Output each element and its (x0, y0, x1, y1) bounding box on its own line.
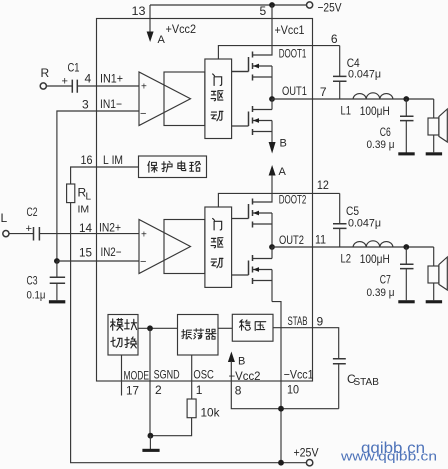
node: +25V rail junction (278, 460, 284, 466)
svg-text:0.047μ: 0.047μ (348, 218, 381, 230)
IC outline box (97, 19, 313, 382)
gate driver box 2 (205, 207, 232, 287)
svg-text:IN2−: IN2− (101, 245, 122, 259)
wire: OUT1 to filter (272, 98, 434, 100)
wire: C1 to IN1+ (pin 4) (77, 85, 139, 87)
inductor L1 (353, 93, 393, 99)
capacitor C3 (56, 261, 58, 277)
ground (398, 300, 414, 303)
wire: IN2- (pin 15) (57, 260, 139, 262)
svg-text:0.39 μ: 0.39 μ (367, 139, 395, 151)
svg-text:+: + (141, 82, 147, 93)
svg-text:IN1+: IN1+ (100, 72, 123, 86)
svg-text:+25V: +25V (294, 446, 319, 460)
wire: pin 5 +Vcc1 drop to M1 drain (253, 5, 273, 55)
arrow B down (M2 source to -Vcc2) (269, 142, 276, 154)
terminal -25V (307, 2, 313, 8)
svg-text:R: R (41, 66, 50, 80)
svg-text:L2: L2 (341, 252, 352, 266)
node OUT2 (269, 244, 275, 250)
wire: SGND pin 2 drop (149, 328, 151, 435)
node: -Vcc rail junction (278, 406, 284, 412)
transistor M4 (lower, ch2) (249, 247, 273, 302)
wire: regulator to pin 9 STAB (273, 328, 339, 359)
svg-text:A: A (279, 166, 287, 178)
svg-text:14: 14 (79, 221, 92, 235)
svg-text:B: B (280, 138, 287, 150)
svg-text:OUT1: OUT1 (282, 84, 307, 98)
ground (49, 300, 65, 303)
ground (426, 300, 442, 303)
svg-text:+: + (141, 230, 147, 241)
svg-text:C3: C3 (27, 274, 38, 288)
svg-text:+Vcc1: +Vcc1 (275, 23, 305, 37)
wire: OUT2 to filter (272, 246, 434, 248)
svg-text:10: 10 (287, 383, 299, 397)
wire: R to C1 (46, 85, 72, 87)
wire: M4 source to pin 10 -Vcc1 (272, 302, 281, 463)
wire: 10k to SGND node (150, 418, 192, 436)
terminal +25V (306, 460, 312, 466)
wire: pin 8 drop (231, 361, 338, 409)
wire: driver1 upper gate lead (232, 71, 249, 73)
svg-text:11: 11 (315, 233, 326, 247)
svg-text:−Vcc2: −Vcc2 (229, 369, 261, 383)
svg-text:STAB: STAB (288, 314, 308, 328)
capacitor C6 (405, 99, 407, 116)
wire: mode box to oscillator (138, 327, 178, 329)
svg-text:IN2+: IN2+ (99, 221, 121, 235)
wire: pin 16 to protection box (71, 167, 139, 184)
svg-text:9: 9 (317, 315, 324, 329)
svg-text:DOOT1: DOOT1 (279, 49, 307, 61)
gate driver box 1 (205, 59, 232, 139)
arrow B up (pin 8 -Vcc2) (228, 352, 235, 363)
svg-text:6: 6 (331, 32, 338, 46)
svg-text:15: 15 (79, 246, 92, 260)
wire: IN1- (pin 3) to left vertical (57, 111, 139, 261)
wire: DOOT1 from driver top to pin 6 (218, 46, 339, 59)
wire: MODE pin 17 stub (121, 355, 123, 396)
svg-text:C6: C6 (380, 125, 391, 139)
svg-text:C2: C2 (27, 205, 38, 219)
wire: L to C2 (9, 233, 34, 235)
node OUT1 (269, 96, 275, 102)
inductor L2 (353, 241, 393, 247)
speaker SP1 (433, 99, 435, 118)
svg-text:+Vcc2: +Vcc2 (166, 22, 197, 36)
wire: OSC pin 1 drop (191, 355, 193, 399)
capacitor C4 (339, 46, 341, 77)
svg-text:0.047μ: 0.047μ (348, 69, 381, 81)
svg-text:8: 8 (235, 383, 242, 397)
wire: R_LIM down to bottom +25V rail (71, 203, 307, 463)
op-amp U2 (139, 220, 191, 274)
svg-text:OUT2: OUT2 (279, 233, 304, 247)
capacitor C_STAB (333, 359, 346, 364)
svg-text:2: 2 (155, 383, 162, 397)
svg-text:−Vcc1: −Vcc1 (284, 368, 314, 382)
resistor R_LIM (67, 184, 75, 203)
svg-text:0.39 μ: 0.39 μ (367, 287, 395, 299)
svg-text:L IM: L IM (103, 153, 123, 167)
wire: pin 13 riser (149, 5, 151, 32)
capacitor C5 (339, 193, 341, 223)
protection box 保护电路 (139, 156, 207, 178)
transistor M3 (upper, ch2) (249, 199, 273, 248)
svg-text:5: 5 (260, 4, 267, 18)
node: IN- common / C3 (54, 258, 60, 264)
svg-text:12: 12 (317, 178, 329, 192)
svg-text:1: 1 (196, 383, 203, 397)
svg-text:17: 17 (126, 384, 139, 398)
node: L1 / C6 junction (403, 96, 409, 102)
svg-text:IM: IM (78, 204, 90, 216)
svg-text:100μH: 100μH (360, 104, 390, 118)
capacitor C7 (405, 247, 407, 264)
ground (398, 152, 414, 155)
node: SGND ground junction (148, 433, 154, 439)
svg-text:16: 16 (81, 153, 93, 167)
svg-text:−25V: −25V (318, 1, 342, 15)
svg-text:L: L (1, 211, 8, 225)
node: L2 / C7 junction (403, 244, 409, 250)
wire: DOOT2 from driver top to pin 12 (218, 193, 339, 207)
svg-text:10k: 10k (201, 406, 221, 420)
ground (426, 152, 442, 155)
svg-text:www.qqibb.cn: www.qqibb.cn (340, 449, 437, 464)
svg-text:A: A (158, 34, 166, 46)
svg-text:B: B (238, 356, 245, 368)
svg-text:7: 7 (320, 85, 327, 99)
svg-text:C5: C5 (346, 204, 359, 218)
wire: driver1 lower gate lead (232, 125, 249, 127)
wire: oscillator to regulator (218, 327, 232, 329)
node SGND branch (147, 325, 153, 331)
resistor 10k (187, 399, 196, 418)
wire: C2 to IN2+ (pin 14) (39, 233, 139, 235)
op-amp U1 (139, 72, 191, 126)
regulator box 稳压 (232, 314, 273, 341)
svg-text:−: − (140, 256, 146, 268)
svg-text:4: 4 (85, 72, 92, 86)
arrow A down (pin 13 +Vcc2) (147, 32, 154, 43)
svg-text:100μH: 100μH (360, 252, 390, 266)
svg-text:MODE: MODE (124, 369, 150, 383)
transistor M2 (lower, ch1) (249, 99, 273, 143)
svg-text:DOOT2: DOOT2 (279, 195, 307, 207)
op-amp U1 feedback rectangle (164, 72, 205, 126)
wire: A to M3 drain (253, 175, 273, 202)
svg-text:C7: C7 (380, 273, 391, 287)
svg-text:−: − (140, 108, 146, 120)
ground (142, 449, 159, 452)
svg-text:SGND: SGND (154, 368, 180, 382)
arrow A up (M3 drain to +Vcc2) (269, 165, 276, 176)
mode switch box 模块切换 (108, 315, 138, 356)
wire: driver2 upper gate lead (232, 218, 249, 220)
wire: driver2 lower gate lead (232, 274, 249, 276)
transistor M1 (upper, ch1) (232, 52, 272, 100)
svg-text:0.1μ: 0.1μ (27, 290, 46, 302)
svg-text:IN1−: IN1− (100, 97, 122, 111)
speaker SP2 (433, 247, 435, 266)
svg-text:L: L (86, 192, 92, 203)
svg-text:3: 3 (82, 98, 89, 112)
svg-text:STAB: STAB (354, 377, 380, 388)
node: junction dot above pin 5 (269, 2, 275, 8)
svg-text:L1: L1 (341, 104, 352, 118)
wire: to ground (149, 436, 151, 449)
svg-text:OSC: OSC (193, 368, 214, 382)
svg-text:C1: C1 (68, 61, 80, 75)
wire: top rail from pin13 riser to -25V terminal (150, 4, 307, 6)
svg-text:13: 13 (132, 4, 146, 18)
op-amp U2 feedback rectangle (164, 220, 205, 274)
oscillator box 振荡器 (178, 315, 219, 356)
